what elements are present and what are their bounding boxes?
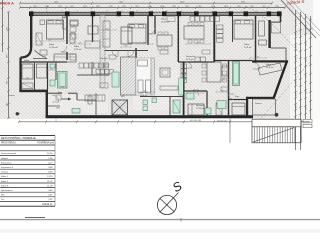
- top exterior wall band: [30, 12, 281, 15]
- kitchen counters left-mid: [79, 63, 113, 74]
- svg-text:Kupaonica 2: Kupaonica 2: [1, 167, 14, 169]
- svg-text:17,35 m²: 17,35 m²: [161, 21, 170, 24]
- svg-text:Soba: Soba: [24, 60, 30, 62]
- right dimension columns: [294, 10, 311, 150]
- right dimension numbers: [296, 20, 308, 110]
- hatched core block: [121, 57, 137, 95]
- svg-text:4,47: 4,47: [48, 195, 53, 197]
- sofa upper-right room: [259, 21, 265, 36]
- svg-text:S: S: [170, 179, 185, 196]
- svg-text:Soba: Soba: [266, 64, 272, 66]
- svg-text:Soba 2: Soba 2: [1, 181, 9, 183]
- main divider wall x184 lower: [183, 62, 185, 115]
- bathroom green right (x186): [186, 93, 194, 99]
- bath wall y96.5: [140, 96, 184, 98]
- divider wall x255: [255, 16, 257, 61]
- svg-text:Terasa: Terasa: [8, 94, 15, 97]
- bottom-left exterior wall: [19, 90, 46, 93]
- right corner step: [280, 16, 282, 22]
- entry walkway lines: [55, 118, 57, 122]
- green near bed right: [205, 108, 211, 114]
- stair guide line x230: [229, 118, 231, 143]
- svg-text:425: 425: [257, 56, 260, 58]
- wall y62 mid: [105, 50, 149, 52]
- main divider wall x214: [213, 16, 215, 62]
- wall x47 upper (hall): [47, 62, 49, 90]
- svg-text:17,8 m²: 17,8 m²: [244, 46, 252, 49]
- diagonal room top wall: [252, 60, 288, 62]
- svg-text:425: 425: [49, 39, 52, 41]
- nightstand room1: [40, 20, 45, 25]
- top dimension numbers: [33, 2, 279, 8]
- divider wall x119: [147, 16, 149, 45]
- interior mini dims: [21, 29, 267, 94]
- desk diagonal room: [258, 63, 282, 75]
- extra small furniture: [56, 17, 228, 101]
- step wall down: [46, 90, 48, 118]
- faint lower band: [0, 230, 320, 233]
- green tub mid2: [173, 100, 180, 113]
- kitchen circles (hobs/sink): [102, 64, 186, 80]
- room interior patches: [290, 35, 320, 119]
- svg-text:17,05 m²: 17,05 m²: [49, 46, 58, 49]
- svg-text:6,48: 6,48: [48, 172, 53, 174]
- window lines in top wall: [34, 13, 277, 15]
- dining table right-top: [184, 26, 204, 39]
- svg-text:Soba 1: Soba 1: [1, 176, 9, 178]
- svg-text:4,90: 4,90: [48, 190, 53, 192]
- kitchen run mid-right: [181, 57, 205, 82]
- bathroom wall x56: [55, 62, 57, 80]
- left lower exterior wall: [19, 58, 21, 92]
- unit tall 1: [138, 80, 143, 93]
- lower-right horizontal wall: [246, 97, 275, 99]
- top dimension line row 1: [19, 2, 273, 5]
- svg-text:102,02 m²: 102,02 m²: [42, 203, 53, 206]
- desk room2: [70, 21, 78, 26]
- svg-text:425: 425: [79, 42, 82, 44]
- bathroom mid2 fixtures: [143, 100, 148, 105]
- divider wall x67: [66, 16, 68, 44]
- svg-text:PROSTORIJA: PROSTORIJA: [1, 142, 16, 145]
- bed top-right: [234, 20, 253, 39]
- diagonal exterior wall: [274, 61, 288, 99]
- top wall columns: [29, 11, 282, 16]
- kitchen top right run: [190, 16, 220, 21]
- svg-text:Ter.: Ter.: [1, 198, 5, 201]
- svg-text:17,05 m²: 17,05 m²: [196, 107, 205, 110]
- svg-text:WC: WC: [1, 195, 5, 197]
- bed lower-left roomA: [22, 64, 33, 79]
- wall x34 lower-left rooms: [34, 62, 36, 90]
- svg-text:425: 425: [143, 42, 146, 44]
- sofa left living: [54, 54, 76, 62]
- wardrobe lower-left: [22, 83, 33, 89]
- svg-text:Soba 3: Soba 3: [1, 185, 9, 187]
- balcony rail top-right: [272, 23, 281, 34]
- kitchen column x216: [217, 25, 224, 42]
- svg-text:ZGRADA A: ZGRADA A: [0, 1, 14, 5]
- unit tall 2: [146, 80, 151, 93]
- bathroom green right2 (x218): [217, 101, 226, 109]
- svg-text:Soba: Soba: [49, 44, 55, 46]
- curved facade transition: [21, 47, 32, 58]
- wall y60 right block: [214, 60, 252, 62]
- kitchenette strip: [103, 21, 110, 47]
- svg-text:Ulaz: Ulaz: [56, 107, 60, 109]
- right terrace top wall: [271, 47, 286, 49]
- wardrobe right lower: [216, 103, 222, 115]
- svg-text:11,21: 11,21: [47, 181, 53, 183]
- svg-text:425: 425: [223, 78, 226, 80]
- armchair mid: [160, 68, 170, 77]
- bed lower-left roomB: [37, 64, 47, 78]
- svg-text:Spavaća: Spavaća: [196, 105, 205, 107]
- left upper exterior wall: [30, 16, 32, 47]
- bed right lower: [232, 103, 245, 115]
- svg-text:Soba: Soba: [74, 46, 80, 48]
- top dim tick row 3: [32, 10, 257, 12]
- svg-text:Kup.: Kup.: [58, 92, 63, 94]
- site dot right: [275, 113, 279, 117]
- divider wall x155: [154, 16, 156, 34]
- compass circle: [157, 195, 176, 214]
- svg-text:16,50: 16,50: [47, 153, 53, 155]
- shaft wall band x110-118: [100, 16, 105, 88]
- room labels: [8, 17, 274, 110]
- left dim numbers: [7, 26, 9, 106]
- interior walls lower-left hall: [48, 92, 62, 94]
- site boundary diagonals top-right: [246, 0, 320, 122]
- toilet left (green): [50, 80, 55, 86]
- svg-text:425: 425: [50, 68, 53, 70]
- svg-text:640 560 165: 640 560 165: [190, 120, 202, 122]
- tv unit mid: [160, 86, 178, 90]
- shaft lower with X: [112, 100, 128, 115]
- svg-text:11,28: 11,28: [47, 185, 53, 187]
- bed room4 big: [128, 24, 146, 43]
- lower-right step wall: [246, 97, 248, 116]
- svg-text:13,76: 13,76: [47, 176, 53, 178]
- area table: [0, 136, 55, 207]
- svg-text:Dnevni boravak: Dnevni boravak: [1, 152, 17, 155]
- svg-text:Kupaonica: Kupaonica: [1, 162, 12, 164]
- footer tick: [180, 218, 182, 221]
- divider wall x230 lower: [228, 61, 230, 116]
- small table left living: [40, 50, 47, 55]
- bottom plan dimension line: [18, 120, 310, 123]
- wc mid (green): [112, 72, 119, 87]
- svg-text:NETO POVRŠINA - PRIZEMLJE: NETO POVRŠINA - PRIZEMLJE: [1, 137, 36, 140]
- svg-text:13,3 m²: 13,3 m²: [74, 48, 82, 51]
- corridor wall y60 left block: [22, 61, 67, 63]
- svg-text:27,9 m²: 27,9 m²: [186, 58, 194, 61]
- svg-text:Hodnik: Hodnik: [1, 158, 9, 160]
- door arcs: [52, 28, 260, 102]
- svg-text:POVRŠINA (m²): POVRŠINA (m²): [37, 142, 54, 145]
- wardrobe room1: [36, 33, 42, 45]
- right upper exterior wall: [268, 20, 270, 48]
- bottom-right terrace outline: [253, 99, 276, 115]
- svg-text:Kuhinja: Kuhinja: [100, 58, 108, 60]
- shelf room2: [70, 20, 78, 25]
- divider wall x178: [177, 16, 179, 62]
- bed mid-right lower: [188, 104, 204, 115]
- svg-text:425: 425: [195, 91, 198, 93]
- bath wall x170: [169, 97, 171, 116]
- stair landing: [252, 119, 301, 127]
- main bottom exterior wall: [46, 115, 253, 118]
- table mid room: [157, 35, 172, 46]
- divider wall x232 short: [232, 16, 234, 42]
- svg-text:425: 425: [26, 77, 29, 79]
- white service strip: [136, 58, 151, 95]
- partition x96 lower: [95, 93, 97, 115]
- signature segment: [25, 217, 45, 219]
- stairs: [252, 127, 295, 143]
- svg-text:240 180 240: 240 180 240: [217, 120, 228, 122]
- unit top strip: [138, 60, 148, 66]
- green mat entrance: [72, 109, 80, 114]
- small boxes right of landing: [303, 120, 312, 123]
- footer rule: [0, 219, 320, 221]
- wardrobe room2: [70, 33, 75, 43]
- site dot left: [16, 112, 19, 115]
- balcony furniture top-right: [222, 66, 228, 76]
- wall y95 mid-right: [184, 90, 207, 92]
- svg-text:425: 425: [106, 28, 109, 30]
- svg-text:1,98: 1,98: [48, 158, 53, 160]
- svg-text:9,08: 9,08: [48, 167, 53, 169]
- svg-text:Kup.: Kup.: [235, 96, 240, 98]
- svg-text:Soba: Soba: [161, 19, 167, 21]
- stair side wall: [300, 119, 302, 143]
- divider wall x92: [92, 16, 94, 42]
- svg-text:425: 425: [125, 45, 128, 47]
- svg-text:11,9 m²: 11,9 m²: [266, 66, 274, 69]
- big green tub x232: [233, 62, 240, 86]
- svg-text:WC: WC: [121, 96, 125, 98]
- svg-text:Ostava: Ostava: [1, 171, 9, 174]
- svg-text:425: 425: [62, 86, 65, 88]
- svg-text:2,61: 2,61: [48, 199, 53, 201]
- compass needle NE: [160, 193, 179, 213]
- svg-text:425: 425: [144, 90, 147, 92]
- top dimension line row 2: [19, 6, 286, 9]
- main divider wall x132: [135, 48, 137, 58]
- hatch column 151: [151, 58, 155, 95]
- svg-text:425: 425: [197, 42, 200, 44]
- svg-text:Terasa: Terasa: [255, 102, 262, 105]
- kitchen wall y75 left-mid: [77, 74, 110, 76]
- svg-text:4,17: 4,17: [48, 162, 53, 164]
- svg-text:Spavaonica: Spavaonica: [1, 190, 13, 192]
- entry arrow: [61, 98, 71, 100]
- left dimension line: [1, 0, 9, 119]
- svg-text:25,6 m²: 25,6 m²: [140, 94, 148, 97]
- shelving storage right of hall: [85, 95, 105, 104]
- desk square room2: [88, 26, 98, 34]
- site ground hatch: [0, 0, 313, 119]
- svg-text:Dnevni b.: Dnevni b.: [186, 56, 196, 58]
- bathroom tub left (green): [58, 72, 68, 89]
- svg-text:Kup.: Kup.: [62, 17, 67, 19]
- compass cross line: [160, 199, 175, 213]
- low cabinet room2: [85, 41, 100, 48]
- sink left (green): [50, 64, 55, 68]
- green wall column: [179, 78, 183, 95]
- wardrobe right of bed1: [63, 17, 68, 29]
- bed room1: [47, 20, 64, 39]
- bed room3: [121, 27, 132, 44]
- dining table tall: [207, 62, 221, 82]
- svg-text:Soba: Soba: [244, 44, 250, 46]
